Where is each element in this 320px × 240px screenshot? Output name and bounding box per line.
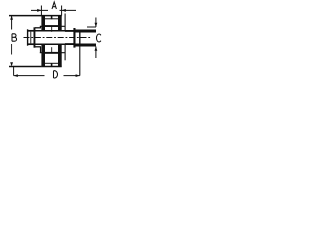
top port top edge <box>41 15 61 17</box>
top port cap line <box>45 18 58 20</box>
dimension C upper tail with down arrow <box>95 18 97 28</box>
left port cap line <box>30 32 32 44</box>
dimension D left segment with left arrow <box>14 75 45 77</box>
body top shoulder <box>40 25 65 27</box>
dimension A dim line left with right arrow <box>31 9 48 11</box>
bottom port bottom edge <box>41 66 61 68</box>
bottom port bore top band <box>45 52 58 54</box>
dimension D label <box>54 71 58 78</box>
left port flange top line <box>35 27 41 29</box>
right port lower tube wall <box>65 43 74 45</box>
bottom port right wall band <box>58 45 62 67</box>
body right edge lower <box>64 44 66 61</box>
top port right wall band <box>58 16 62 31</box>
top port bore bottom band <box>45 25 58 27</box>
top port center tick <box>51 16 53 20</box>
dimension D right extension drop <box>79 47 81 76</box>
dimension A dim line right with left arrow <box>60 9 77 11</box>
left port flange bottom line <box>35 46 41 48</box>
right piece flange band <box>73 28 75 48</box>
horizontal bore lower wall <box>35 43 74 45</box>
horizontal bore upper wall <box>35 30 74 32</box>
left port end cap <box>27 29 29 45</box>
right port upper tube wall <box>65 30 74 32</box>
bottom port center tick <box>51 63 53 67</box>
dimension B dim line upper segment <box>11 16 13 30</box>
dimension B down arrow <box>10 62 13 66</box>
dimension B label <box>12 34 17 41</box>
bottom port left wall band <box>41 45 45 67</box>
dimension C lower tail with up arrow <box>95 47 97 59</box>
dimension B top extension line <box>9 15 41 17</box>
dimension A left extension line <box>40 6 42 16</box>
top port left wall band <box>41 16 45 31</box>
right piece bottom bar <box>76 44 97 47</box>
right piece nut face <box>79 30 81 47</box>
right piece top right extension line <box>87 26 96 28</box>
left port lower tube wall <box>28 43 35 45</box>
dimension B dim line lower segment <box>11 44 13 55</box>
dimension B bottom extension line <box>9 66 41 68</box>
dimension C label <box>96 34 100 42</box>
dimension D right segment with right arrow <box>64 75 80 77</box>
dimension A label <box>52 2 56 9</box>
dimension A right extension line <box>61 6 63 16</box>
body right edge upper <box>64 14 66 32</box>
right piece top bar <box>76 30 97 33</box>
vertical centerline lower segment <box>51 47 53 52</box>
body bottom shoulder <box>40 52 65 54</box>
dimension D left extension drop <box>13 67 15 76</box>
horizontal centerline <box>24 37 92 39</box>
left port flange band <box>34 27 36 47</box>
dimension B up arrow <box>10 16 13 20</box>
body left edge lower <box>40 47 42 53</box>
bottom port cap line <box>45 62 58 64</box>
left port upper tube wall <box>28 30 35 32</box>
vertical centerline upper segment <box>51 27 53 32</box>
body left edge upper <box>40 26 42 28</box>
